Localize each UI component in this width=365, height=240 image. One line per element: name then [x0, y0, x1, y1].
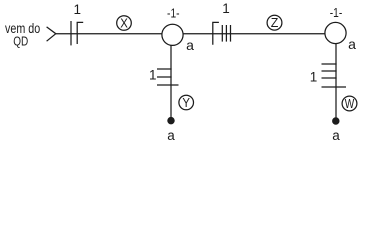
switch point a (right), wall box [333, 118, 339, 124]
svg-text:a: a [167, 128, 175, 143]
svg-text:a: a [332, 128, 340, 143]
svg-text:1: 1 [310, 70, 318, 85]
wire: QD to lamp 1 (segment X) [56, 33, 162, 35]
svg-text:1: 1 [74, 2, 82, 17]
svg-text:-1-: -1- [167, 6, 180, 21]
conduit label W [342, 96, 357, 111]
conductor ticks group 2: three ticks [221, 25, 223, 42]
node: feed label "vem do QD" [5, 20, 40, 48]
wire: lamp 1 down to switch a (segment Y) [170, 45, 172, 117]
conductor ticks group 1: phase tick [70, 21, 72, 45]
svg-text:W: W [345, 97, 355, 111]
conductor ticks group 3: two ticks [157, 68, 172, 70]
svg-text:a: a [186, 37, 194, 53]
svg-text:a: a [348, 36, 356, 52]
feed arrow chevron [47, 27, 56, 41]
conduit label Z [267, 15, 282, 30]
conductor ticks group 4: three ticks [322, 63, 337, 65]
svg-text:1: 1 [149, 67, 157, 82]
wire: lamp 1 to lamp 2 (segment Z) [183, 33, 325, 35]
conductor ticks group 3: long tick [157, 84, 179, 86]
conductor ticks group 1: return flag [77, 22, 83, 44]
svg-text:-1-: -1- [330, 5, 343, 20]
lamp outlet 2 (ceiling), circuit -1-, switch a [325, 22, 346, 43]
conductor ticks group 4: long tick [322, 86, 347, 88]
svg-text:Y: Y [182, 96, 190, 110]
switch point a (left), wall box [168, 118, 174, 124]
lamp outlet 1 (ceiling), circuit -1-, switch a [162, 24, 183, 45]
conduit label Y [179, 95, 194, 110]
svg-text:1: 1 [222, 1, 230, 16]
wire: lamp 2 down to switch a (segment W) [335, 44, 337, 119]
conductor ticks group 2: return flag [213, 22, 219, 44]
svg-text:X: X [120, 17, 128, 31]
conduit label X [117, 16, 132, 31]
svg-text:QD: QD [13, 33, 28, 48]
svg-text:Z: Z [271, 16, 279, 30]
